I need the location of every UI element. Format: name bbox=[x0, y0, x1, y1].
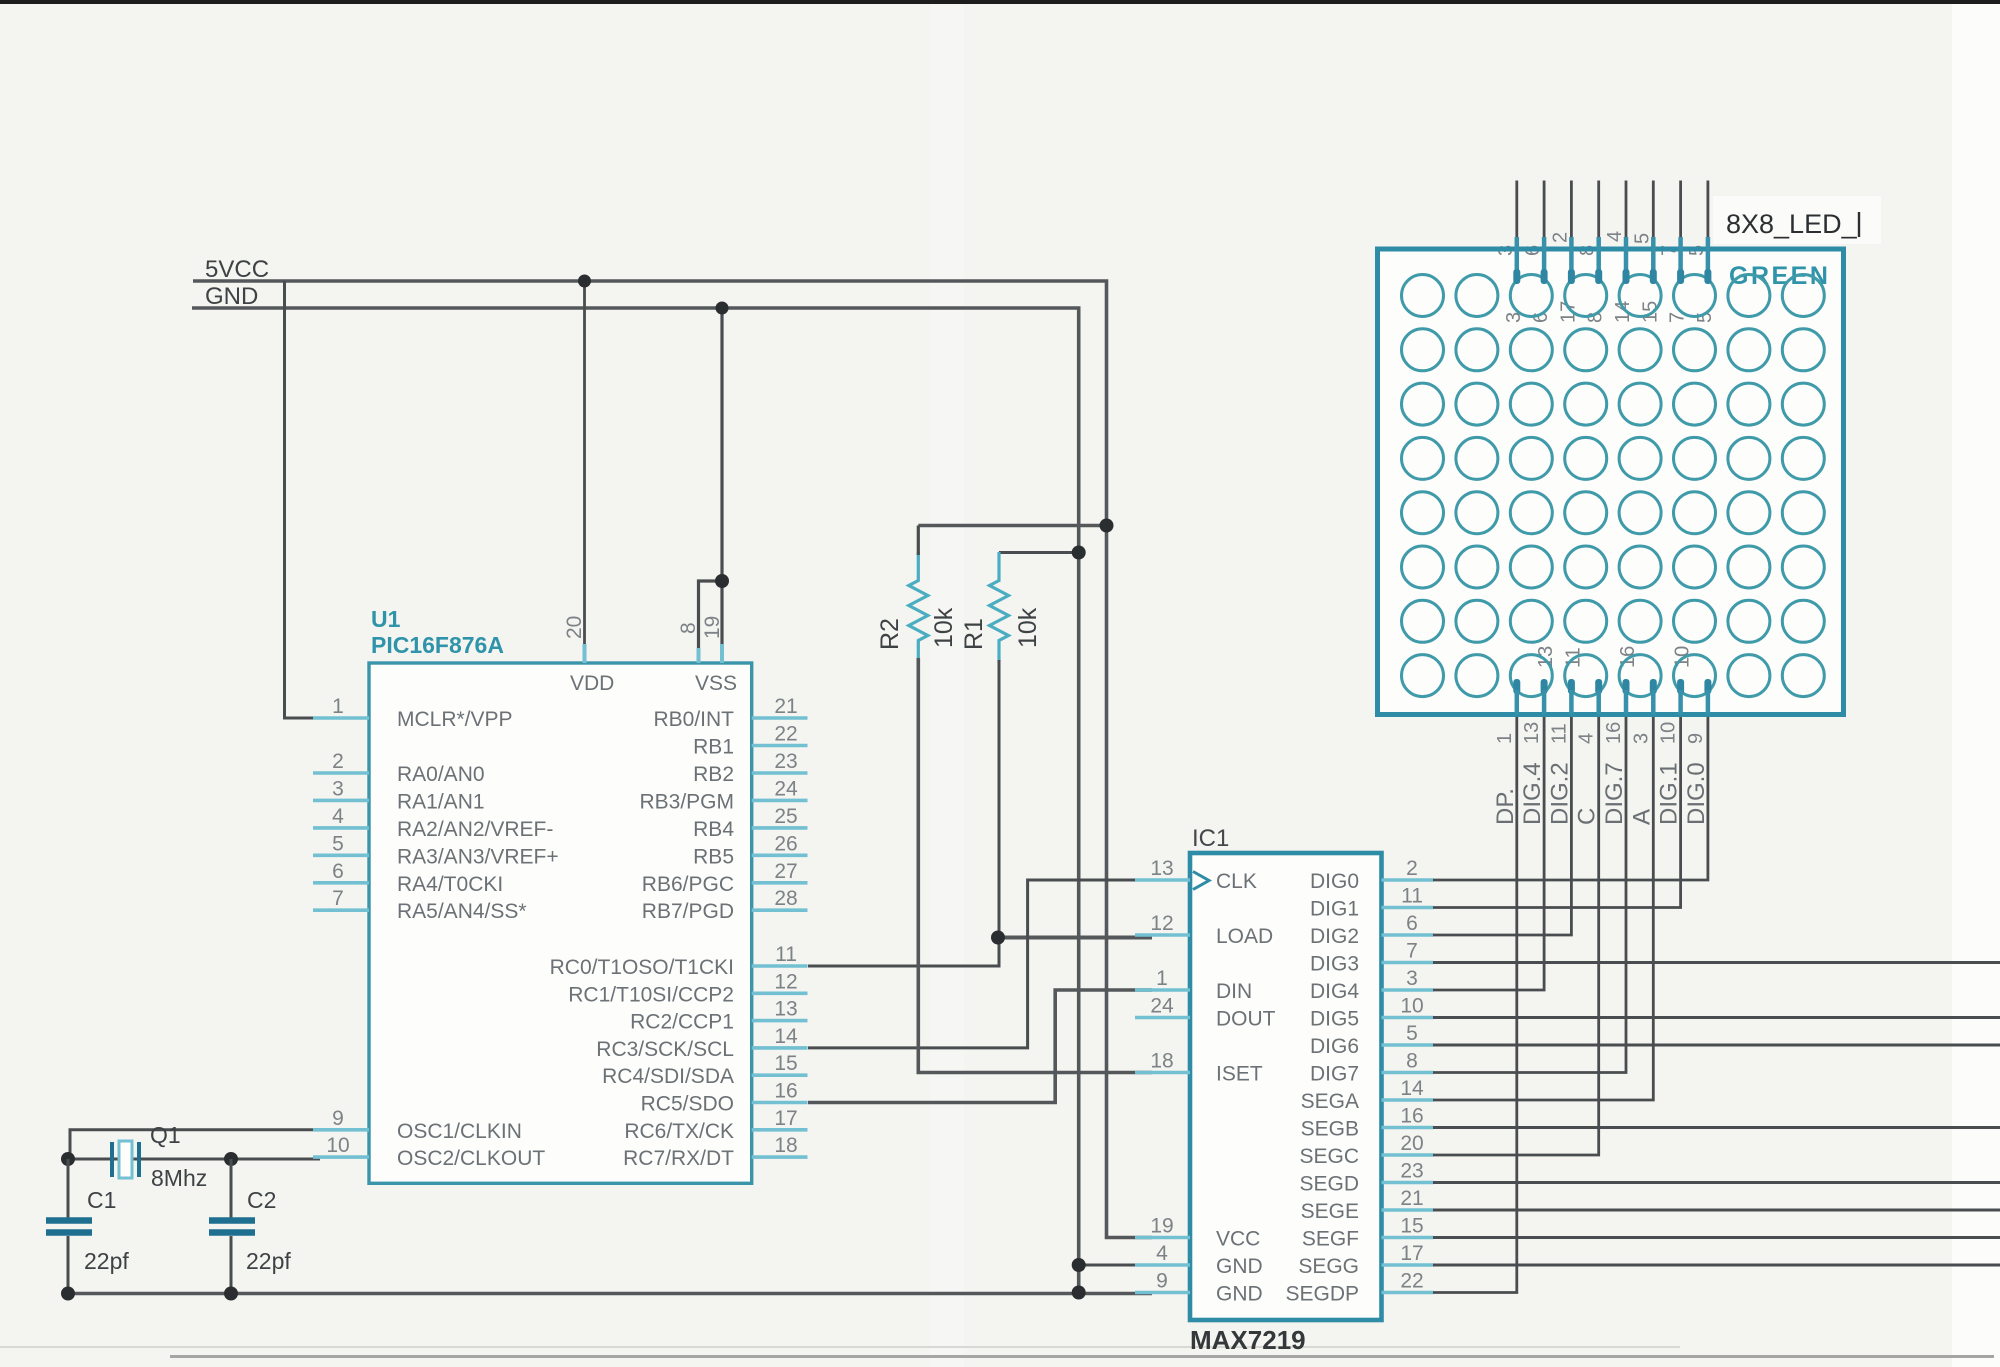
svg-text:IC1: IC1 bbox=[1192, 825, 1229, 852]
pin 5 DIG6 (right) bbox=[1310, 1022, 1434, 1058]
svg-text:2: 2 bbox=[1549, 232, 1571, 243]
svg-text:RA4/T0CKI: RA4/T0CKI bbox=[397, 873, 503, 896]
pin 10 OSC2/CLKOUT bbox=[313, 1134, 545, 1170]
crystal Q1 bbox=[112, 1141, 139, 1178]
svg-text:DIG.7: DIG.7 bbox=[1601, 762, 1628, 825]
pin 19 VSS stub bbox=[720, 644, 724, 663]
pin 8 DIG7 (right) bbox=[1310, 1050, 1434, 1086]
pin 16 RC5/SDO bbox=[641, 1080, 808, 1116]
svg-text:DP.: DP. bbox=[1492, 788, 1519, 825]
pin 9 GND (left) bbox=[1135, 1270, 1263, 1306]
matrix bottom pin 8 net DIG.0 bbox=[1683, 679, 1712, 825]
svg-text:DIG7: DIG7 bbox=[1310, 1063, 1359, 1086]
wire DIG7 to matrix bbox=[1433, 715, 1626, 1073]
wire SEGF to edge bbox=[1433, 1236, 2000, 1239]
svg-text:15: 15 bbox=[774, 1052, 797, 1075]
svg-text:23: 23 bbox=[774, 750, 797, 773]
svg-text:14: 14 bbox=[1612, 301, 1634, 323]
junction VSS corner bbox=[715, 574, 729, 588]
junction GND/VSS bbox=[716, 302, 729, 315]
wire DIG0 to matrix bbox=[1433, 715, 1708, 881]
matrix bottom pin numbers (inside) bbox=[1535, 646, 1694, 668]
resistor R1 10k bbox=[990, 552, 1009, 662]
svg-text:RB6/PGC: RB6/PGC bbox=[642, 873, 734, 896]
svg-text:SEGDP: SEGDP bbox=[1285, 1283, 1359, 1306]
svg-text:10k: 10k bbox=[1014, 607, 1042, 648]
wire SEGA/A to matrix bbox=[1433, 715, 1653, 1101]
wire GND rail bbox=[192, 308, 1079, 1293]
wire RC3/CLK net bbox=[808, 880, 1152, 1048]
pin 8 VSS stub bbox=[697, 648, 701, 663]
pin 20 SEGC (right) bbox=[1299, 1132, 1433, 1168]
svg-text:DIG1: DIG1 bbox=[1310, 898, 1359, 921]
svg-text:ISET: ISET bbox=[1216, 1063, 1263, 1086]
svg-text:27: 27 bbox=[774, 860, 797, 883]
svg-text:8: 8 bbox=[677, 622, 700, 634]
svg-text:RC3/SCK/SCL: RC3/SCK/SCL bbox=[596, 1038, 734, 1061]
svg-text:11: 11 bbox=[775, 943, 797, 966]
pin 16 SEGB (right) bbox=[1301, 1105, 1434, 1141]
junction crystal right bbox=[224, 1152, 238, 1166]
svg-text:DIG4: DIG4 bbox=[1310, 980, 1359, 1003]
wire crystal row / OSC2 net bbox=[68, 1158, 320, 1161]
junction ground C1 bbox=[61, 1287, 75, 1301]
svg-text:10k: 10k bbox=[930, 607, 958, 648]
clock input symbol bbox=[1193, 872, 1209, 890]
matrix bottom pin 7 net DIG.1 bbox=[1656, 679, 1685, 825]
svg-text:19: 19 bbox=[1150, 1215, 1173, 1238]
svg-text:14: 14 bbox=[774, 1025, 798, 1048]
wire SEGD to edge bbox=[1433, 1181, 2000, 1184]
matrix top pin 2 bbox=[1541, 181, 1548, 285]
wire DIG3 to edge bbox=[1433, 961, 2000, 964]
junction GND rail pin4 bbox=[1072, 1258, 1086, 1272]
svg-text:19: 19 bbox=[701, 616, 724, 639]
svg-text:3: 3 bbox=[332, 777, 344, 800]
pin 7 RA5/AN4/SS* bbox=[313, 887, 527, 923]
svg-text:LOAD: LOAD bbox=[1216, 925, 1273, 948]
svg-text:DIG.4: DIG.4 bbox=[1519, 762, 1546, 825]
pin 21 RB0/INT bbox=[653, 695, 807, 731]
svg-text:11: 11 bbox=[1401, 885, 1423, 908]
svg-text:R1: R1 bbox=[960, 618, 988, 650]
matrix top pin 6 bbox=[1650, 181, 1657, 285]
svg-text:DOUT: DOUT bbox=[1216, 1008, 1276, 1031]
svg-text:RB5: RB5 bbox=[693, 845, 734, 868]
matrix bottom pin 3 net DIG.2 bbox=[1546, 679, 1575, 825]
svg-text:12: 12 bbox=[774, 970, 797, 993]
wire DIG2 to matrix bbox=[1433, 715, 1571, 936]
svg-text:RC5/SDO: RC5/SDO bbox=[641, 1093, 734, 1116]
pin 25 RB4 bbox=[693, 805, 807, 841]
pin 4 RA2/AN2/VREF- bbox=[313, 805, 553, 841]
pin 12 RC1/T10SI/CCP2 bbox=[568, 970, 807, 1006]
svg-text:17: 17 bbox=[774, 1107, 797, 1130]
svg-text:10: 10 bbox=[326, 1134, 349, 1157]
svg-text:4: 4 bbox=[332, 805, 344, 828]
svg-text:9: 9 bbox=[1156, 1270, 1168, 1293]
top scanner bar bbox=[0, 0, 2000, 4]
svg-text:C1: C1 bbox=[87, 1187, 116, 1213]
wire SEGB to edge bbox=[1433, 1126, 2000, 1129]
pin 13 CLK (left) bbox=[1135, 857, 1257, 893]
wire R1 top to GND bbox=[999, 551, 1079, 554]
svg-text:RB0/INT: RB0/INT bbox=[653, 708, 734, 731]
wire DIG5 to edge bbox=[1433, 1016, 2000, 1019]
pin 9 OSC1/CLKIN bbox=[313, 1107, 522, 1143]
pin 11 DIG1 (right) bbox=[1310, 885, 1434, 921]
matrix bottom pin 6 net A bbox=[1628, 679, 1657, 825]
bottom scanner line bbox=[170, 1355, 1994, 1358]
pin 12 LOAD (left) bbox=[1135, 912, 1273, 948]
svg-text:DIG.0: DIG.0 bbox=[1683, 762, 1710, 825]
svg-text:RB3/PGM: RB3/PGM bbox=[639, 790, 734, 813]
svg-text:24: 24 bbox=[774, 777, 798, 800]
svg-text:21: 21 bbox=[1400, 1187, 1423, 1210]
wire RC5/DIN net bbox=[808, 990, 1152, 1103]
svg-text:GND: GND bbox=[1216, 1283, 1263, 1306]
pin 28 RB7/PGD bbox=[642, 887, 808, 923]
svg-text:SEGE: SEGE bbox=[1301, 1200, 1359, 1223]
matrix bottom pin 5 net DIG.7 bbox=[1601, 679, 1630, 825]
svg-text:GND: GND bbox=[205, 283, 258, 310]
svg-text:9: 9 bbox=[1685, 733, 1707, 744]
faint scan line bbox=[0, 1346, 1680, 1348]
pin 15 RC4/SDI/SDA bbox=[602, 1052, 807, 1088]
pin 1 DIN (left) bbox=[1135, 967, 1252, 1003]
svg-text:22pf: 22pf bbox=[84, 1248, 129, 1274]
matrix top pin 3 bbox=[1568, 181, 1575, 285]
svg-text:RC1/T10SI/CCP2: RC1/T10SI/CCP2 bbox=[568, 983, 734, 1006]
svg-text:RC2/CCP1: RC2/CCP1 bbox=[630, 1011, 734, 1034]
svg-text:DIG0: DIG0 bbox=[1310, 870, 1359, 893]
svg-text:26: 26 bbox=[774, 832, 797, 855]
pin 27 RB6/PGC bbox=[642, 860, 808, 896]
wire DIG1 to matrix bbox=[1433, 715, 1681, 908]
svg-text:2: 2 bbox=[332, 750, 344, 773]
svg-text:8Mhz: 8Mhz bbox=[151, 1165, 207, 1191]
matrix top pin numbers (outside) bbox=[1495, 231, 1708, 256]
svg-text:GND: GND bbox=[1216, 1255, 1263, 1278]
svg-text:RB7/PGD: RB7/PGD bbox=[642, 900, 734, 923]
svg-text:RA0/AN0: RA0/AN0 bbox=[397, 763, 485, 786]
svg-text:16: 16 bbox=[774, 1080, 797, 1103]
svg-text:23: 23 bbox=[1400, 1160, 1423, 1183]
wire SEGC/C to matrix bbox=[1433, 715, 1599, 1156]
svg-text:OSC2/CLKOUT: OSC2/CLKOUT bbox=[397, 1147, 545, 1170]
svg-text:10: 10 bbox=[1400, 995, 1423, 1018]
matrix top pin numbers (inside) bbox=[1503, 301, 1716, 323]
junction R2/5VCC bbox=[1100, 519, 1114, 533]
svg-text:MAX7219: MAX7219 bbox=[1190, 1325, 1306, 1355]
svg-text:1: 1 bbox=[1494, 733, 1516, 744]
svg-text:16: 16 bbox=[1603, 722, 1625, 744]
matrix top pin 8 bbox=[1704, 181, 1711, 285]
svg-text:13: 13 bbox=[1150, 857, 1173, 880]
svg-text:C: C bbox=[1574, 808, 1601, 825]
junction R1/GND bbox=[1072, 546, 1086, 560]
svg-text:3: 3 bbox=[1630, 733, 1652, 744]
svg-text:4: 4 bbox=[1156, 1242, 1168, 1265]
wire SEGG to edge bbox=[1433, 1264, 2000, 1267]
pin 1 MCLR*/VPP bbox=[313, 695, 513, 731]
pin 6 DIG2 (right) bbox=[1310, 912, 1434, 948]
svg-text:RA2/AN2/VREF-: RA2/AN2/VREF- bbox=[397, 818, 553, 841]
svg-text:RC7/RX/DT: RC7/RX/DT bbox=[623, 1147, 734, 1170]
svg-text:6: 6 bbox=[1406, 912, 1418, 935]
svg-text:22: 22 bbox=[774, 723, 797, 746]
8x8 LED matrix body bbox=[1378, 249, 1844, 715]
IC IC1 MAX7219 body bbox=[1190, 853, 1382, 1320]
wire R2 top to 5VCC bbox=[918, 524, 1106, 528]
svg-text:3: 3 bbox=[1406, 967, 1418, 990]
svg-text:14: 14 bbox=[1400, 1077, 1424, 1100]
pin 3 RA1/AN1 bbox=[313, 777, 485, 813]
pin 18 RC7/RX/DT bbox=[623, 1134, 807, 1170]
wire LOAD branch bbox=[998, 936, 1153, 940]
svg-text:8X8_LED_: 8X8_LED_ bbox=[1726, 209, 1858, 239]
pin 10 DIG5 (right) bbox=[1310, 995, 1434, 1031]
pin 24 DOUT (left) bbox=[1135, 995, 1276, 1031]
junction crystal left bbox=[61, 1152, 75, 1166]
junction GND rail pin9 bbox=[1072, 1286, 1086, 1300]
svg-text:9: 9 bbox=[332, 1107, 344, 1130]
svg-text:SEGF: SEGF bbox=[1302, 1228, 1359, 1251]
svg-text:25: 25 bbox=[774, 805, 797, 828]
svg-text:1: 1 bbox=[332, 695, 344, 718]
wire SEGE to edge bbox=[1433, 1209, 2000, 1212]
wire MCLR to 5VCC bbox=[285, 281, 367, 718]
svg-text:21: 21 bbox=[774, 695, 797, 718]
svg-text:5: 5 bbox=[332, 832, 344, 855]
pin 14 RC3/SCK/SCL bbox=[596, 1025, 807, 1061]
pin 17 SEGG (right) bbox=[1298, 1242, 1433, 1278]
svg-text:17: 17 bbox=[1400, 1242, 1423, 1265]
pin 23 SEGD (right) bbox=[1299, 1160, 1433, 1196]
pin 26 RB5 bbox=[693, 832, 807, 868]
svg-text:1: 1 bbox=[1156, 967, 1168, 990]
matrix top pin 5 bbox=[1623, 181, 1630, 285]
pin 21 SEGE (right) bbox=[1301, 1187, 1434, 1223]
svg-text:Q1: Q1 bbox=[150, 1122, 181, 1148]
svg-text:24: 24 bbox=[1150, 995, 1174, 1018]
wire DIG6 to edge bbox=[1433, 1044, 2000, 1047]
svg-text:RC4/SDI/SDA: RC4/SDI/SDA bbox=[602, 1065, 734, 1088]
svg-text:18: 18 bbox=[774, 1134, 797, 1157]
svg-text:7: 7 bbox=[332, 887, 344, 910]
svg-text:A: A bbox=[1628, 809, 1655, 825]
svg-text:12: 12 bbox=[1150, 912, 1173, 935]
svg-text:DIG3: DIG3 bbox=[1310, 953, 1359, 976]
svg-text:5: 5 bbox=[1406, 1022, 1418, 1045]
svg-text:C2: C2 bbox=[247, 1187, 276, 1213]
junction ground C2 bbox=[224, 1287, 238, 1301]
svg-text:RB2: RB2 bbox=[693, 763, 734, 786]
svg-text:RC0/T1OSO/T1CKI: RC0/T1OSO/T1CKI bbox=[550, 956, 734, 979]
wire VDD to 5VCC bbox=[583, 281, 586, 650]
svg-text:RB1: RB1 bbox=[693, 736, 734, 759]
svg-text:RB4: RB4 bbox=[693, 818, 734, 841]
pin 19 VCC (left) bbox=[1135, 1215, 1260, 1251]
pin 7 DIG3 (right) bbox=[1310, 940, 1434, 976]
matrix top pin 4 bbox=[1595, 181, 1602, 285]
svg-text:MCLR*/VPP: MCLR*/VPP bbox=[397, 708, 513, 731]
pin 15 SEGF (right) bbox=[1302, 1215, 1434, 1251]
svg-text:DIG.2: DIG.2 bbox=[1546, 762, 1573, 825]
svg-text:SEGD: SEGD bbox=[1299, 1173, 1359, 1196]
wire SEGDP/DP. to matrix bbox=[1433, 715, 1517, 1293]
svg-text:22: 22 bbox=[1400, 1270, 1423, 1293]
matrix bottom pin 4 net C bbox=[1574, 679, 1603, 825]
svg-text:PIC16F876A: PIC16F876A bbox=[371, 632, 504, 658]
IC U1 PIC16F876A body bbox=[369, 663, 752, 1183]
wire VSS to GND bbox=[699, 308, 723, 652]
svg-text:SEGA: SEGA bbox=[1301, 1090, 1359, 1113]
svg-text:13: 13 bbox=[1521, 722, 1543, 744]
pin 13 RC2/CCP1 bbox=[630, 998, 807, 1034]
capacitor C2 bbox=[209, 1159, 255, 1294]
svg-text:18: 18 bbox=[1150, 1050, 1173, 1073]
svg-text:SEGC: SEGC bbox=[1299, 1145, 1359, 1168]
svg-text:RA5/AN4/SS*: RA5/AN4/SS* bbox=[397, 900, 527, 923]
svg-text:VSS: VSS bbox=[695, 672, 737, 695]
svg-text:OSC1/CLKIN: OSC1/CLKIN bbox=[397, 1120, 522, 1143]
pin 6 RA4/T0CKI bbox=[313, 860, 503, 896]
junction LOAD/R1 bbox=[991, 931, 1005, 945]
matrix bottom pin 1 net DP. bbox=[1492, 679, 1521, 825]
pin 17 RC6/TX/CK bbox=[624, 1107, 807, 1143]
LED circles grid bbox=[1402, 275, 1825, 697]
pin 14 SEGA (right) bbox=[1301, 1077, 1434, 1113]
wire 5VCC rail bbox=[193, 281, 1152, 1238]
wire OSC1 net bbox=[70, 1130, 320, 1159]
svg-text:4: 4 bbox=[1576, 733, 1598, 744]
matrix top pin 7 bbox=[1677, 181, 1684, 285]
svg-text:DIG.1: DIG.1 bbox=[1656, 762, 1683, 825]
matrix border restroke bbox=[1378, 249, 1844, 715]
pin 4 GND (left) bbox=[1135, 1242, 1263, 1278]
svg-text:DIN: DIN bbox=[1216, 980, 1252, 1003]
svg-text:2: 2 bbox=[1406, 857, 1418, 880]
wire GND pin4 branch bbox=[1079, 1264, 1152, 1267]
svg-text:11: 11 bbox=[1548, 723, 1570, 744]
pin 11 RC0/T1OSO/T1CKI bbox=[550, 943, 808, 979]
resistor R2 10k bbox=[909, 552, 928, 662]
pin 2 DIG0 (right) bbox=[1310, 857, 1434, 893]
svg-text:R2: R2 bbox=[876, 618, 904, 650]
junction 5VCC/VDD bbox=[578, 275, 591, 288]
wire DIG4 to matrix bbox=[1433, 715, 1544, 991]
wire R2/ISET net bbox=[918, 658, 1152, 1073]
svg-text:U1: U1 bbox=[371, 606, 401, 632]
matrix bottom pin 2 net DIG.4 bbox=[1519, 679, 1548, 825]
pin 24 RB3/PGM bbox=[639, 777, 807, 813]
svg-text:SEGB: SEGB bbox=[1301, 1118, 1359, 1141]
matrix top pin 1 bbox=[1513, 181, 1520, 285]
svg-text:5: 5 bbox=[1631, 233, 1653, 244]
svg-text:VDD: VDD bbox=[570, 672, 614, 695]
svg-text:7: 7 bbox=[1406, 940, 1418, 963]
svg-text:10: 10 bbox=[1658, 722, 1680, 744]
capacitor C1 bbox=[46, 1159, 92, 1294]
pin 3 DIG4 (right) bbox=[1310, 967, 1434, 1003]
svg-text:CLK: CLK bbox=[1216, 870, 1257, 893]
pin 20 VDD stub bbox=[583, 644, 587, 663]
svg-text:RA3/AN3/VREF+: RA3/AN3/VREF+ bbox=[397, 845, 559, 868]
svg-text:16: 16 bbox=[1400, 1105, 1423, 1128]
svg-text:13: 13 bbox=[774, 998, 797, 1021]
wire RC0/LOAD net with R1 bbox=[808, 660, 999, 966]
pin 5 RA3/AN3/VREF+ bbox=[313, 832, 559, 868]
pin 23 RB2 bbox=[693, 750, 807, 786]
svg-text:4: 4 bbox=[1604, 231, 1626, 242]
svg-text:DIG5: DIG5 bbox=[1310, 1008, 1359, 1031]
svg-text:15: 15 bbox=[1400, 1215, 1423, 1238]
svg-text:5VCC: 5VCC bbox=[205, 256, 269, 283]
svg-text:8: 8 bbox=[1406, 1050, 1418, 1073]
svg-text:RA1/AN1: RA1/AN1 bbox=[397, 790, 485, 813]
svg-text:20: 20 bbox=[1400, 1132, 1423, 1155]
svg-text:DIG6: DIG6 bbox=[1310, 1035, 1359, 1058]
svg-text:DIG2: DIG2 bbox=[1310, 925, 1359, 948]
pin 2 RA0/AN0 bbox=[313, 750, 485, 786]
svg-text:20: 20 bbox=[563, 616, 586, 639]
svg-text:VCC: VCC bbox=[1216, 1228, 1260, 1251]
svg-text:RC6/TX/CK: RC6/TX/CK bbox=[624, 1120, 734, 1143]
svg-text:22pf: 22pf bbox=[246, 1248, 291, 1274]
wire bottom ground rail bbox=[68, 1292, 1152, 1295]
pin 18 ISET (left) bbox=[1135, 1050, 1263, 1086]
svg-text:6: 6 bbox=[332, 860, 344, 883]
svg-text:SEGG: SEGG bbox=[1298, 1255, 1359, 1278]
svg-text:17: 17 bbox=[1557, 301, 1579, 323]
pin 22 RB1 bbox=[693, 723, 807, 759]
pin 22 SEGDP (right) bbox=[1285, 1270, 1433, 1306]
svg-text:28: 28 bbox=[774, 887, 797, 910]
